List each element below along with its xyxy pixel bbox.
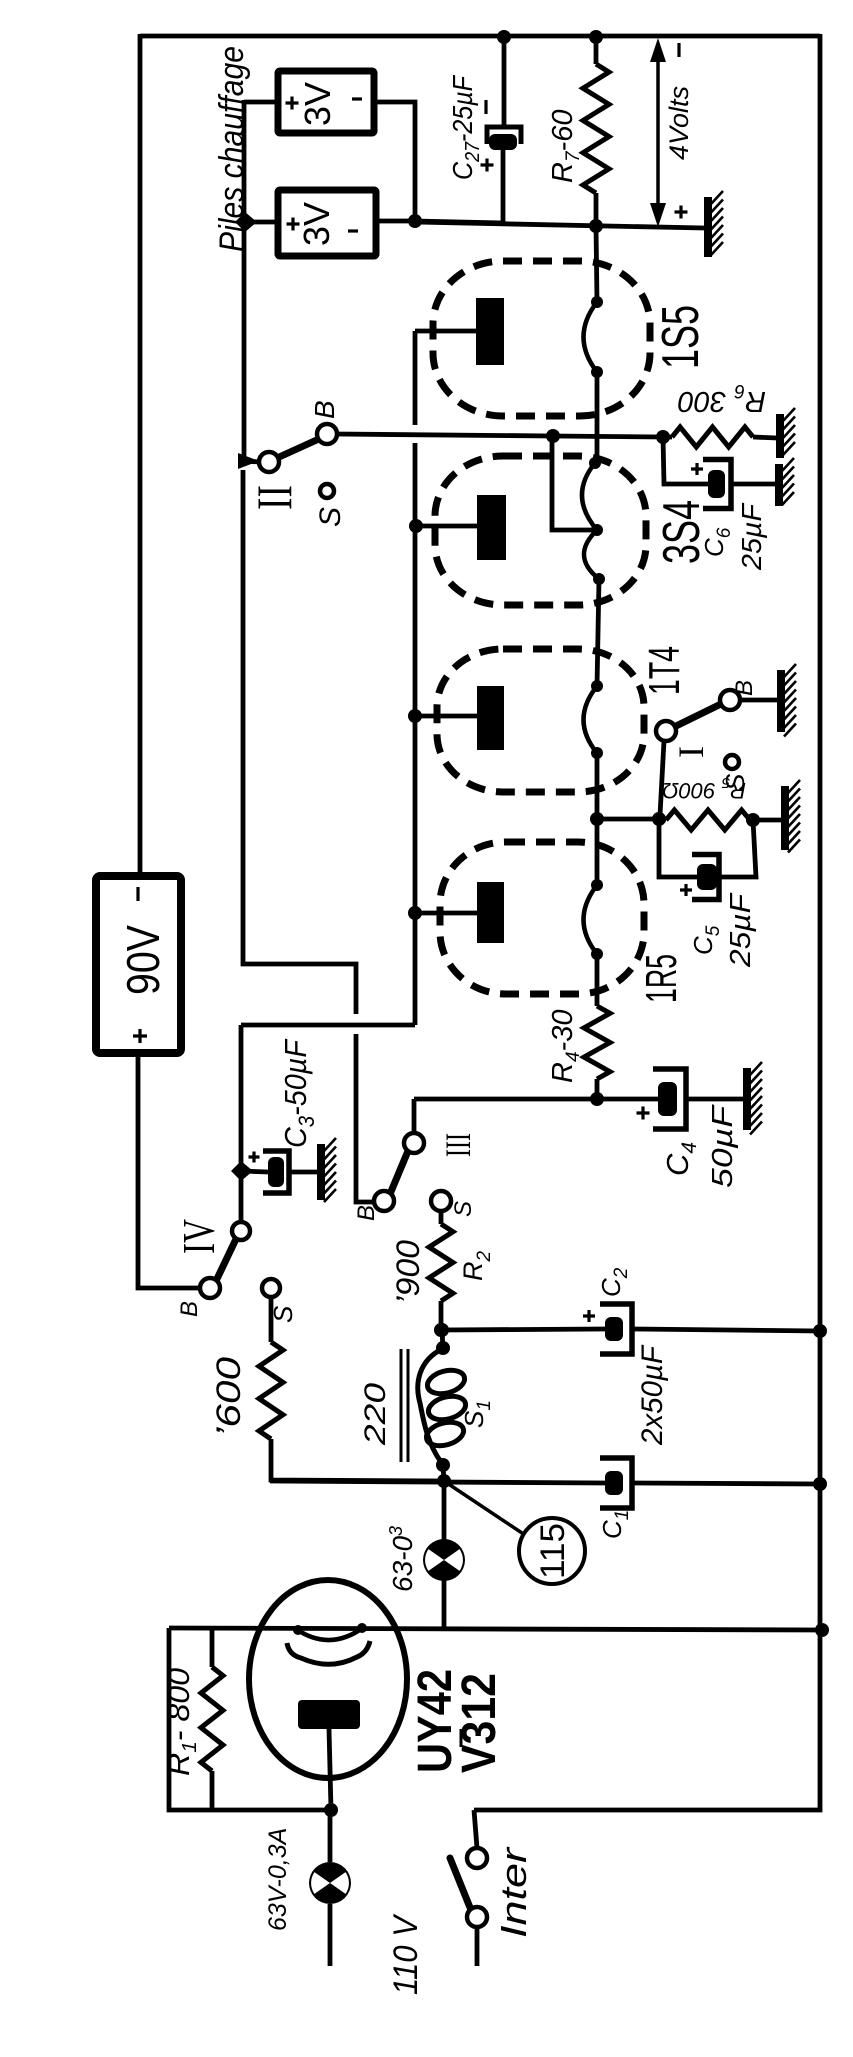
svg-text:S: S — [450, 1201, 477, 1217]
svg-text:R7-60: R7-60 — [547, 110, 584, 183]
svg-text:B: B — [176, 1301, 203, 1317]
svg-text:90V: 90V — [117, 925, 169, 995]
svg-text:’600: ’600 — [210, 1357, 248, 1437]
svg-text:IV: IV — [173, 1219, 224, 1254]
svg-text:63V-0,3A: 63V-0,3A — [264, 1828, 292, 1931]
svg-text:3V: 3V — [296, 202, 337, 246]
svg-text:Piles chauffage: Piles chauffage — [213, 46, 251, 252]
svg-text:R1- 800: R1- 800 — [161, 1668, 201, 1776]
svg-text:S: S — [314, 507, 347, 527]
svg-text:3S4: 3S4 — [653, 500, 711, 564]
svg-text:V312: V312 — [453, 1673, 506, 1773]
svg-text:3V: 3V — [297, 82, 338, 126]
svg-text:4Volts: 4Volts — [664, 86, 694, 160]
svg-text:50µF: 50µF — [707, 1103, 739, 1188]
svg-text:B: B — [309, 400, 340, 419]
svg-text:25µF: 25µF — [736, 502, 767, 571]
svg-text:1R5: 1R5 — [637, 954, 686, 1003]
svg-text:25µF: 25µF — [725, 892, 757, 969]
svg-text:I: I — [671, 746, 711, 758]
svg-text:R6 300: R6 300 — [678, 380, 766, 417]
svg-text:115: 115 — [534, 1523, 572, 1579]
svg-text:III: III — [438, 1133, 478, 1157]
svg-text:’900: ’900 — [390, 1240, 426, 1304]
svg-text:1T4: 1T4 — [640, 646, 689, 695]
svg-text:Inter: Inter — [493, 1846, 534, 1938]
svg-text:C3-50µF: C3-50µF — [278, 1038, 319, 1148]
svg-text:220: 220 — [359, 1383, 392, 1447]
svg-text:110 V: 110 V — [387, 1913, 425, 1995]
svg-text:B: B — [353, 1205, 380, 1221]
svg-text:R4-30: R4-30 — [547, 1010, 584, 1083]
svg-text:B: B — [731, 680, 758, 696]
svg-text:1S5: 1S5 — [652, 305, 710, 369]
svg-text:2x50µF: 2x50µF — [636, 1344, 669, 1446]
svg-text:II: II — [246, 485, 302, 510]
svg-text:R5 900Ω: R5 900Ω — [662, 774, 746, 803]
